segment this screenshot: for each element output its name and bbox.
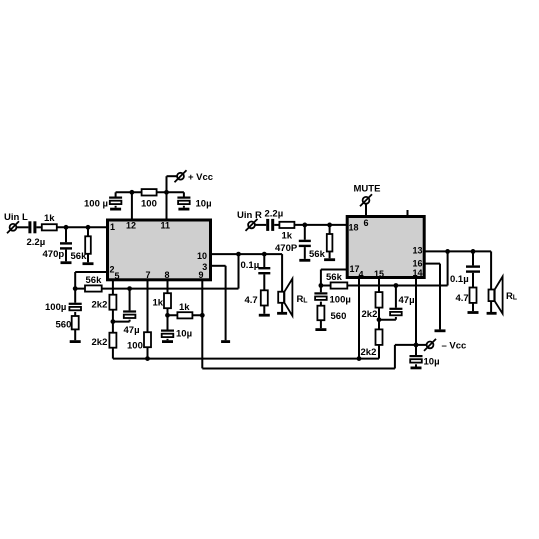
- resistor R3 100: [142, 189, 157, 195]
- svg-text:560: 560: [56, 320, 72, 331]
- svg-text:10: 10: [197, 251, 207, 261]
- wire: [167, 176, 178, 193]
- label 47u: [399, 295, 415, 306]
- capacitor C3 100u supply: [109, 197, 122, 205]
- wire: [320, 302, 322, 306]
- wire pin 8 down: [167, 279, 169, 293]
- svg-text:L: L: [303, 297, 308, 304]
- label 1k: [179, 302, 190, 313]
- capacitor C1 2.2u series input: [28, 221, 36, 233]
- label 2k2: [362, 309, 378, 320]
- node G junction: [111, 319, 116, 324]
- label 10u: [176, 329, 192, 340]
- label 56k: [309, 249, 326, 260]
- resistor R1 1k: [42, 224, 57, 230]
- pin 18 label: [349, 222, 359, 232]
- svg-text:Uin L: Uin L: [4, 212, 28, 223]
- resistor R15 560: [317, 306, 324, 321]
- svg-text:100: 100: [127, 341, 143, 352]
- ground: [162, 340, 173, 343]
- ground: [110, 208, 121, 211]
- op-amp U1 hybrid IC left channel: [108, 220, 211, 280]
- svg-text:2k2: 2k2: [361, 347, 377, 358]
- capacitor C6 47u: [123, 310, 136, 318]
- capacitor C13 10u: [410, 355, 423, 363]
- node U junction: [471, 249, 476, 254]
- label 1k: [44, 213, 55, 224]
- label 100: [141, 199, 157, 210]
- label 560: [56, 320, 72, 331]
- wire: [472, 303, 474, 311]
- wire: [415, 364, 417, 366]
- wire: [74, 329, 76, 340]
- pin 6 label: [364, 218, 369, 228]
- capacitor C14 0.1u: [466, 265, 480, 272]
- capacitor C5 100u: [69, 303, 82, 311]
- resistor R5 560: [72, 316, 79, 329]
- wire: [16, 226, 28, 228]
- label RL right: [506, 291, 518, 302]
- ground: [83, 262, 94, 265]
- wire bottom bus line B: [202, 345, 416, 369]
- svg-text:14: 14: [413, 268, 423, 278]
- wire pin 10 out: [211, 253, 282, 255]
- svg-text:2.2µ: 2.2µ: [27, 237, 46, 248]
- ground: [221, 340, 230, 343]
- resistor R14 56k feedback: [331, 282, 348, 288]
- svg-text:10µ: 10µ: [424, 357, 440, 368]
- label 470p: [43, 249, 65, 260]
- node K junction: [236, 252, 241, 257]
- pin 4 label: [359, 269, 364, 279]
- wire: [378, 308, 380, 330]
- svg-text:2.2µ: 2.2µ: [265, 208, 284, 219]
- node D junction +Vcc: [164, 190, 169, 195]
- wire 0.1u branch: [472, 251, 474, 265]
- resistor R12 1k: [279, 222, 294, 228]
- svg-text:2k2: 2k2: [362, 309, 378, 320]
- svg-text:1k: 1k: [153, 298, 164, 309]
- ground: [70, 340, 81, 343]
- wire pin 14 down: [415, 277, 417, 355]
- node P junction 47u top: [394, 283, 399, 288]
- wire 47u branch: [129, 289, 131, 311]
- wire: [36, 226, 41, 228]
- pin 12 label: [126, 221, 136, 231]
- capacitor C11 100u: [314, 292, 327, 300]
- svg-text:L: L: [513, 294, 518, 301]
- speaker RL left: [278, 279, 292, 316]
- pin 14 label: [413, 268, 423, 278]
- svg-text:56k: 56k: [71, 251, 88, 262]
- wire: [304, 225, 306, 240]
- svg-text:11: 11: [161, 221, 171, 231]
- node F junction 47u top: [127, 286, 132, 291]
- wire pin 17 out: [321, 270, 347, 286]
- svg-text:2k2: 2k2: [92, 337, 108, 348]
- resistor R7 2k2: [109, 333, 116, 348]
- node Q junction: [357, 356, 362, 361]
- svg-text:4.7: 4.7: [245, 295, 258, 306]
- svg-text:0.1µ: 0.1µ: [450, 274, 469, 285]
- resistor R18 4.7: [470, 288, 477, 303]
- wire: [183, 206, 185, 208]
- ground: [487, 312, 497, 315]
- svg-text:47µ: 47µ: [124, 325, 140, 336]
- wire speaker feed: [490, 251, 492, 312]
- wire: [472, 273, 474, 288]
- connector J1 Uin L: [7, 221, 19, 233]
- wire: [320, 320, 322, 328]
- resistor R16 2k2: [376, 292, 383, 308]
- svg-text:1k: 1k: [179, 302, 190, 313]
- capacitor C9 2.2u series input: [266, 219, 274, 231]
- resistor R11 4.7: [261, 290, 268, 305]
- wire pin 3 out: [211, 266, 226, 340]
- svg-text:100µ: 100µ: [45, 302, 66, 313]
- svg-text:100: 100: [141, 199, 157, 210]
- node Uin R input label: [237, 210, 262, 221]
- capacitor C2 470p: [60, 242, 72, 249]
- wire feedback up to output: [238, 254, 240, 289]
- label 56k: [326, 272, 343, 283]
- label 560: [331, 311, 347, 322]
- svg-text:13: 13: [413, 246, 423, 256]
- capacitor C12 47u: [389, 308, 402, 316]
- label - Vcc: [442, 341, 467, 352]
- connector J2 Uin R: [246, 219, 258, 231]
- node H junction: [145, 356, 150, 361]
- node O junction: [319, 283, 324, 288]
- ground: [61, 261, 72, 264]
- wire: [115, 206, 117, 208]
- node R junction: [377, 317, 382, 322]
- wire pin 6: [365, 204, 367, 217]
- pin 13 label: [413, 246, 423, 256]
- wire: [329, 225, 331, 234]
- ground: [259, 314, 270, 317]
- label 0.1u: [450, 274, 469, 285]
- wire pin 11: [166, 192, 168, 220]
- wire bottom bus line A: [113, 358, 379, 360]
- node B junction: [86, 225, 91, 230]
- wire: [115, 192, 117, 196]
- label 10u: [196, 199, 212, 210]
- pin 17 label: [350, 264, 360, 274]
- label 1k: [153, 298, 164, 309]
- svg-text:1: 1: [110, 222, 115, 232]
- svg-text:100µ: 100µ: [330, 295, 351, 306]
- node T junction: [445, 249, 450, 254]
- capacitor C7 10u: [161, 330, 174, 338]
- svg-text:56k: 56k: [86, 275, 103, 286]
- svg-text:47µ: 47µ: [399, 295, 415, 306]
- wire: [74, 289, 76, 303]
- node N junction: [327, 223, 332, 228]
- node E junction: [73, 286, 78, 291]
- wire pin 9 down: [201, 279, 203, 368]
- svg-text:18: 18: [349, 222, 359, 232]
- label 2k2: [92, 337, 108, 348]
- node J junction: [200, 313, 205, 318]
- wire: [167, 308, 169, 329]
- wire speaker feed: [281, 254, 283, 312]
- svg-text:1k: 1k: [282, 231, 293, 242]
- pin 2 label: [110, 265, 115, 275]
- svg-text:7: 7: [146, 270, 151, 280]
- node M junction: [302, 223, 307, 228]
- ground: [435, 329, 446, 332]
- label 2k2: [92, 299, 108, 310]
- svg-text:56k: 56k: [309, 249, 326, 260]
- speaker RL right: [489, 277, 503, 314]
- wire 47u branch: [395, 286, 397, 308]
- wire: [320, 286, 322, 293]
- pin 3 label: [202, 262, 207, 272]
- wire: [304, 247, 306, 259]
- connector +Vcc: [175, 170, 187, 182]
- pin 11 label: [161, 221, 171, 231]
- wire feedback line: [321, 285, 448, 287]
- svg-text:10µ: 10µ: [196, 199, 212, 210]
- wire: [87, 227, 89, 236]
- capacitor C10 470P: [299, 240, 311, 247]
- label RL left: [297, 294, 309, 305]
- wire: [147, 347, 149, 358]
- svg-text:6: 6: [364, 218, 369, 228]
- svg-text:4.7: 4.7: [456, 293, 469, 304]
- ground: [178, 208, 189, 211]
- wire pin 5 down: [112, 279, 114, 295]
- label 100u: [45, 302, 66, 313]
- ground: [315, 328, 326, 331]
- connector MUTE: [360, 194, 372, 206]
- wire pin 7 down: [147, 279, 149, 332]
- resistor R10 1k: [177, 312, 192, 318]
- node L junction: [262, 252, 267, 257]
- resistor R8 100: [144, 332, 151, 347]
- node C junction pin12: [130, 190, 135, 195]
- connector -Vcc: [424, 339, 436, 351]
- wire pin 12: [131, 192, 133, 220]
- wire feedback line: [75, 288, 238, 290]
- pin 5 label: [115, 271, 120, 281]
- label 2.2u: [265, 208, 284, 219]
- wire pin 4 down: [358, 277, 360, 359]
- resistor R9 1k: [164, 293, 171, 308]
- wire 0.1u branch: [263, 254, 265, 267]
- label MUTE: [354, 184, 381, 195]
- wire: [183, 192, 185, 196]
- svg-text:100 µ: 100 µ: [84, 199, 108, 210]
- wire 1k bridge: [168, 314, 203, 316]
- wire: [274, 224, 279, 226]
- wire: [65, 250, 67, 262]
- svg-text:10µ: 10µ: [176, 329, 192, 340]
- pin 16 label: [413, 259, 423, 269]
- resistor R17 2k2: [376, 329, 383, 345]
- svg-text:9: 9: [199, 270, 204, 280]
- svg-text:+ Vcc: + Vcc: [188, 172, 213, 183]
- wire: [255, 224, 266, 226]
- label 4.7: [245, 295, 258, 306]
- wire: [263, 306, 265, 314]
- ground: [324, 258, 335, 261]
- wire pin 15 down: [378, 277, 380, 292]
- wire to pin 1: [57, 226, 106, 228]
- wire +Vcc rail: [116, 191, 184, 193]
- svg-text:56k: 56k: [326, 272, 343, 283]
- node S junction -Vcc: [414, 343, 419, 348]
- capacitor C8 0.1u: [258, 267, 270, 274]
- ground: [277, 312, 287, 315]
- wire pin 13 out: [425, 250, 492, 252]
- label + Vcc: [188, 172, 213, 183]
- wire: [65, 227, 67, 242]
- svg-text:8: 8: [165, 270, 170, 280]
- label 470P: [275, 243, 298, 254]
- svg-text:560: 560: [331, 311, 347, 322]
- label 100: [127, 341, 143, 352]
- wire: [167, 339, 169, 340]
- pin stub top: [407, 210, 409, 216]
- label 2.2u: [27, 237, 46, 248]
- ground: [468, 311, 479, 314]
- wire pin 2 out: [75, 272, 106, 289]
- resistor R13 56k: [327, 234, 333, 252]
- label 56k: [86, 275, 103, 286]
- svg-text:1k: 1k: [44, 213, 55, 224]
- capacitor C4 10u supply: [177, 197, 190, 205]
- wire: [112, 348, 114, 359]
- resistor R2 56k: [85, 236, 91, 254]
- node A junction: [64, 225, 69, 230]
- wire: [87, 254, 89, 262]
- label 10u: [424, 357, 440, 368]
- pin 7 label: [146, 270, 151, 280]
- wire: [263, 274, 265, 290]
- svg-text:2k2: 2k2: [92, 299, 108, 310]
- label 56k: [71, 251, 88, 262]
- svg-text:470P: 470P: [275, 243, 298, 254]
- pin 1 label: [110, 222, 115, 232]
- wire pin 16 out: [425, 264, 441, 330]
- node I junction: [165, 313, 170, 318]
- label 4.7: [456, 293, 469, 304]
- wire feedback up to output: [447, 251, 449, 285]
- svg-text:5: 5: [115, 271, 120, 281]
- svg-text:470p: 470p: [43, 249, 65, 260]
- ground: [411, 367, 422, 370]
- label 1k: [282, 231, 293, 242]
- wire: [113, 320, 130, 322]
- op-amp U2 hybrid IC right channel: [347, 217, 424, 278]
- resistor R4 56k feedback: [85, 285, 102, 291]
- label 0.1u: [241, 260, 260, 271]
- ground: [299, 259, 310, 262]
- label 100u: [84, 199, 108, 210]
- pin 10 label: [197, 251, 207, 261]
- svg-text:– Vcc: – Vcc: [442, 341, 467, 352]
- svg-text:16: 16: [413, 259, 423, 269]
- wire: [329, 252, 331, 259]
- svg-text:MUTE: MUTE: [354, 184, 381, 195]
- svg-text:0.1µ: 0.1µ: [241, 260, 260, 271]
- resistor R6 2k2: [109, 295, 116, 310]
- pin 8 label: [165, 270, 170, 280]
- label 100u: [330, 295, 351, 306]
- wire: [112, 310, 114, 333]
- wire: [74, 312, 76, 316]
- svg-text:Uin R: Uin R: [237, 210, 262, 221]
- pin 15 label: [374, 269, 384, 279]
- node Uin L input label: [4, 212, 28, 223]
- wire to -Vcc connector: [416, 344, 427, 346]
- svg-text:12: 12: [126, 221, 136, 231]
- pin 9 label: [199, 270, 204, 280]
- label 47u: [124, 325, 140, 336]
- label 2k2: [361, 347, 377, 358]
- wire to pin 18: [294, 224, 346, 226]
- wire: [378, 345, 380, 359]
- wire: [379, 317, 396, 320]
